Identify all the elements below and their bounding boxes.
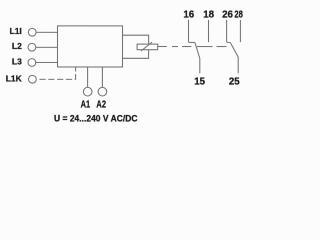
svg-text:28: 28 bbox=[234, 9, 243, 20]
coil K1 diagonal bbox=[141, 42, 152, 51]
svg-text:18: 18 bbox=[203, 9, 214, 20]
svg-text:U = 24...240 V AC/DC: U = 24...240 V AC/DC bbox=[54, 113, 138, 123]
coil K1 body bbox=[137, 44, 158, 50]
contact 1 NC foot bbox=[189, 41, 195, 43]
terminal circle A1 bbox=[83, 87, 92, 96]
svg-text:16: 16 bbox=[183, 9, 194, 20]
contact 2 terminal 28 line bbox=[239, 20, 241, 42]
svg-text:L2: L2 bbox=[12, 41, 22, 51]
svg-text:L3: L3 bbox=[12, 56, 22, 66]
dashed wire L1K to box bottom bbox=[39, 67, 75, 79]
contact 1 terminal 18 line bbox=[208, 20, 210, 42]
terminal circle L3 bbox=[28, 59, 36, 67]
svg-text:A1: A1 bbox=[81, 100, 91, 111]
svg-text:A2: A2 bbox=[96, 100, 106, 111]
mechanical linkage dash 3 bbox=[197, 46, 213, 48]
terminal circle L1K bbox=[28, 75, 36, 83]
contact 2 switch arm to 25 bbox=[230, 42, 238, 73]
contact 1 switch arm to 15 bbox=[195, 42, 200, 73]
mechanical linkage dash 4 bbox=[217, 46, 227, 48]
contact 2 terminal 26 line bbox=[226, 20, 228, 42]
terminal circle L1I bbox=[28, 28, 36, 36]
wire coil bottom return to box bbox=[123, 50, 149, 59]
wire L3 to box bbox=[36, 61, 57, 63]
wire L2 to box bbox=[36, 46, 58, 48]
svg-text:L1K: L1K bbox=[6, 73, 23, 83]
mechanical linkage dash 1 bbox=[172, 46, 178, 48]
relay body box U1 bbox=[58, 26, 123, 67]
svg-text:L1I: L1I bbox=[10, 26, 22, 36]
svg-text:26: 26 bbox=[222, 9, 233, 20]
wire box to coil top bbox=[123, 35, 149, 44]
mechanical linkage dash 2 bbox=[182, 46, 191, 48]
wire L1I to box bbox=[36, 31, 57, 33]
contact 2 NC foot bbox=[227, 41, 231, 43]
wire A1 stub bbox=[87, 67, 89, 87]
wire A2 stub bbox=[101, 67, 103, 87]
terminal circle A2 bbox=[98, 87, 107, 96]
contact 1 terminal 16 line bbox=[188, 20, 190, 42]
mechanical linkage solid segment bbox=[158, 46, 167, 48]
svg-text:25: 25 bbox=[229, 76, 240, 87]
terminal circle L2 bbox=[28, 43, 36, 51]
svg-text:15: 15 bbox=[194, 76, 205, 87]
